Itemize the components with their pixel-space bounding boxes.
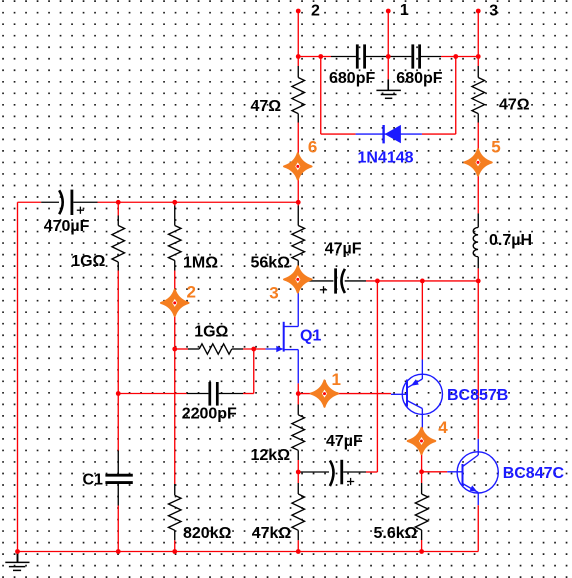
svg-text:1GΩ: 1GΩ bbox=[194, 324, 228, 341]
svg-text:47kΩ: 47kΩ bbox=[252, 525, 292, 542]
svg-text:680pF: 680pF bbox=[396, 70, 442, 87]
svg-text:47µF: 47µF bbox=[325, 241, 362, 258]
svg-text:820kΩ: 820kΩ bbox=[183, 525, 232, 542]
svg-text:Q1: Q1 bbox=[300, 328, 321, 345]
svg-text:3: 3 bbox=[269, 284, 278, 303]
svg-text:5: 5 bbox=[491, 137, 500, 156]
svg-text:1N4148: 1N4148 bbox=[358, 149, 414, 166]
svg-text:0.7µH: 0.7µH bbox=[489, 232, 532, 249]
svg-text:2: 2 bbox=[187, 283, 196, 302]
svg-text:2: 2 bbox=[311, 2, 320, 19]
svg-text:1: 1 bbox=[332, 370, 341, 389]
svg-text:12kΩ: 12kΩ bbox=[251, 447, 291, 464]
svg-text:47Ω: 47Ω bbox=[251, 98, 282, 115]
svg-text:1: 1 bbox=[400, 2, 409, 19]
svg-text:56kΩ: 56kΩ bbox=[251, 254, 291, 271]
svg-text:1GΩ: 1GΩ bbox=[71, 253, 105, 270]
svg-text:C1: C1 bbox=[83, 471, 104, 488]
svg-text:BC857B: BC857B bbox=[447, 387, 508, 404]
svg-text:1MΩ: 1MΩ bbox=[183, 254, 218, 271]
svg-text:3: 3 bbox=[489, 3, 498, 20]
svg-text:680pF: 680pF bbox=[329, 70, 375, 87]
svg-text:4: 4 bbox=[438, 418, 448, 437]
svg-text:47µF: 47µF bbox=[326, 433, 363, 450]
svg-text:470µF: 470µF bbox=[44, 218, 90, 235]
svg-text:6: 6 bbox=[308, 137, 317, 156]
svg-text:47Ω: 47Ω bbox=[499, 97, 530, 114]
svg-text:2200pF: 2200pF bbox=[182, 406, 237, 423]
svg-text:5.6kΩ: 5.6kΩ bbox=[374, 525, 418, 542]
svg-text:BC847C: BC847C bbox=[503, 465, 565, 482]
